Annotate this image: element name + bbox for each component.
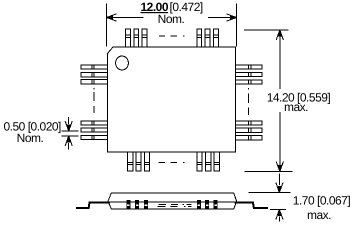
centerline bottom bbox=[159, 161, 185, 163]
left-top pin group bbox=[81, 65, 108, 84]
right-bottom pin group bbox=[236, 121, 263, 140]
centerline left (vertical) bbox=[93, 88, 95, 113]
dimension 12.00: extension lines bbox=[107, 4, 237, 47]
side right lead bbox=[235, 202, 269, 208]
dimension 14.20: extension lines bbox=[244, 30, 293, 172]
svg-text:max.: max. bbox=[284, 100, 308, 114]
side lead strip top line bbox=[109, 201, 236, 203]
top-left pin group bbox=[126, 29, 147, 47]
svg-text:Nom.: Nom. bbox=[158, 12, 185, 26]
dimension 12.00: arrows bbox=[107, 14, 117, 21]
package body outline (top view, chamfered top-left corner) bbox=[108, 47, 236, 152]
bottom-right pin group bbox=[197, 152, 220, 171]
side center dash rows bbox=[158, 204, 192, 206]
centerline right (vertical) bbox=[248, 88, 250, 115]
dimension 0.50: arrows with stems bbox=[68, 117, 70, 124]
pin 1 index circle bbox=[116, 56, 129, 70]
dimension 12.00: dimension line with gap for text bbox=[107, 17, 237, 19]
bottom-left pin group bbox=[128, 152, 150, 171]
left-bottom pin group bbox=[81, 121, 108, 140]
dimension 14.20: arrows bbox=[276, 30, 283, 40]
right-top pin group bbox=[236, 65, 263, 84]
dimension 1.70: extension lines bbox=[249, 193, 291, 210]
top-right pin group bbox=[197, 29, 219, 47]
svg-text:Nom.: Nom. bbox=[17, 131, 44, 145]
centerline top (horizontal dash-dash-dot) bbox=[159, 35, 185, 37]
side body hexagon bbox=[108, 193, 237, 209]
svg-text:1.70 [0.067]: 1.70 [0.067] bbox=[293, 194, 351, 208]
svg-text:max.: max. bbox=[307, 208, 331, 222]
side pin rects bbox=[126, 200, 217, 209]
side left lead bbox=[76, 202, 110, 208]
dimension 14.20: dimension line with gap for text bbox=[279, 30, 281, 172]
dimension 0.50: extension lines bbox=[62, 131, 79, 136]
dimension 1.70: arrows with stems bbox=[278, 174, 280, 186]
